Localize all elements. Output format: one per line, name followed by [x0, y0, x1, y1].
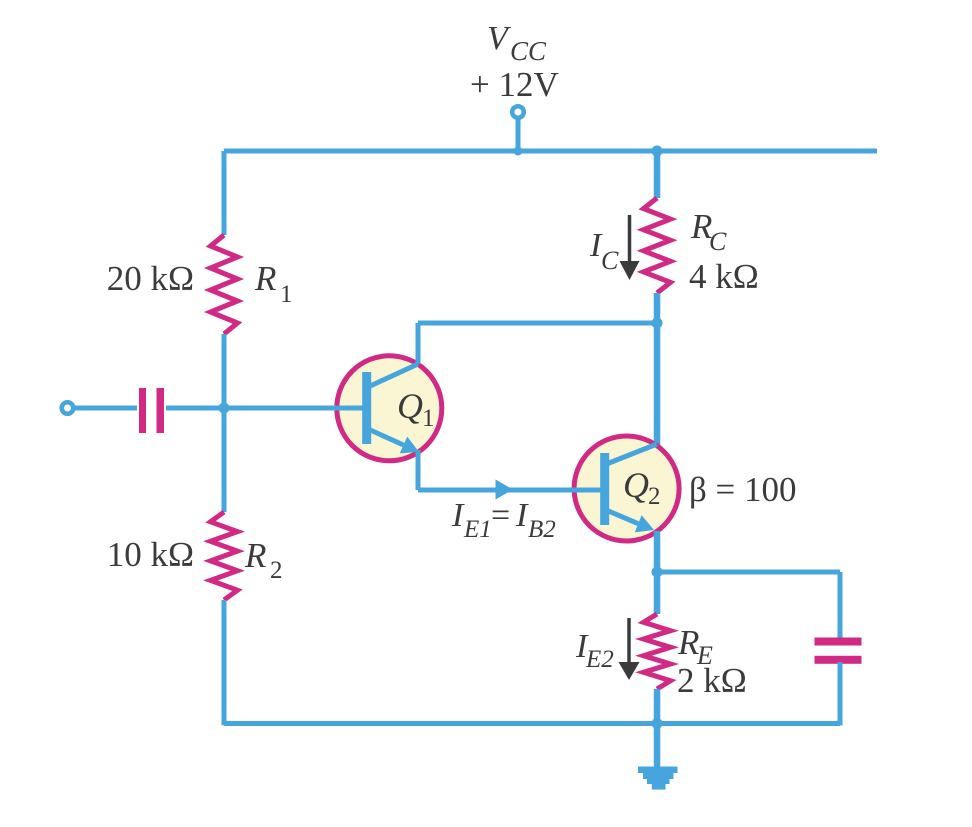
capacitor bypass [815, 638, 862, 664]
arrow IE2 current [619, 618, 640, 680]
node top rail junction [652, 146, 663, 157]
ground [638, 767, 678, 790]
svg-text:=: = [491, 497, 510, 534]
wire Q1 collector vertical [416, 323, 421, 364]
svg-text:C: C [709, 227, 727, 256]
resistor RC [644, 198, 671, 293]
wire bypass branch lower [838, 662, 843, 726]
wire left vertical lower [222, 600, 227, 725]
svg-text:V: V [487, 20, 512, 57]
arrow IE1 current [496, 480, 514, 500]
terminal input [62, 402, 74, 414]
node input/R1/R2 junction [219, 403, 230, 414]
capacitor input coupling [139, 388, 164, 433]
node emitter junction [652, 567, 663, 578]
svg-text:I: I [515, 497, 529, 534]
svg-text:β = 100: β = 100 [689, 470, 797, 509]
svg-text:C: C [601, 246, 619, 275]
wire bypass branch upper [838, 572, 843, 639]
transistor Q2 [571, 436, 679, 541]
svg-text:E2: E2 [585, 646, 614, 673]
wire Q1 emitter vertical [416, 450, 421, 490]
wire RE to ground [654, 689, 661, 768]
wire left vertical middle [222, 334, 227, 512]
wire Q1 collector horizontal to RC node [418, 321, 657, 326]
svg-text:Q: Q [397, 386, 423, 426]
label Q1 [397, 386, 435, 432]
arrow IC current [620, 215, 640, 280]
terminal Vcc [512, 106, 524, 118]
wire Q2 emitter vertical [654, 531, 661, 614]
resistor R2 [211, 512, 238, 600]
wire input left [74, 406, 137, 411]
wire top horizontal rail [224, 149, 877, 154]
label Q2 [623, 465, 661, 510]
svg-text:2: 2 [270, 557, 283, 584]
svg-text:E1: E1 [463, 516, 492, 543]
label R1 [254, 259, 293, 308]
svg-text:10 kΩ: 10 kΩ [107, 535, 194, 574]
label R2 [244, 536, 283, 584]
resistor RC wire above [654, 151, 661, 198]
wire input right [166, 406, 363, 411]
node ground junction [652, 718, 663, 729]
svg-text:R: R [244, 536, 266, 575]
wire Vcc stem [516, 119, 521, 151]
label IE1 = IB2 [451, 497, 556, 543]
svg-text:I: I [451, 497, 465, 534]
svg-text:1: 1 [422, 405, 435, 432]
svg-text:CC: CC [510, 36, 547, 66]
label IC [589, 227, 619, 275]
label IE2 [575, 628, 614, 673]
label RE [677, 623, 713, 670]
wire Q1 emitter to Q2 base [418, 488, 604, 493]
svg-text:B2: B2 [528, 516, 556, 543]
label Vcc [487, 20, 547, 66]
svg-text:R: R [254, 259, 276, 298]
svg-text:4 kΩ: 4 kΩ [689, 257, 759, 296]
svg-text:1: 1 [280, 281, 293, 308]
svg-text:2 kΩ: 2 kΩ [677, 661, 747, 700]
node collector junction [652, 318, 663, 329]
svg-text:+ 12V: + 12V [470, 65, 559, 104]
resistor RE [644, 614, 671, 689]
wire left vertical upper [222, 151, 227, 235]
label RC [690, 207, 727, 256]
wire bottom rail [224, 721, 840, 726]
wire RC lower vertical [654, 293, 661, 445]
node Vcc junction [514, 147, 523, 156]
svg-text:20 kΩ: 20 kΩ [107, 259, 194, 298]
svg-text:2: 2 [648, 483, 661, 510]
resistor R1 [211, 235, 238, 334]
transistor Q1 [334, 356, 442, 461]
wire emitter to bypass cap horizontal [657, 570, 840, 575]
svg-text:Q: Q [623, 465, 649, 505]
